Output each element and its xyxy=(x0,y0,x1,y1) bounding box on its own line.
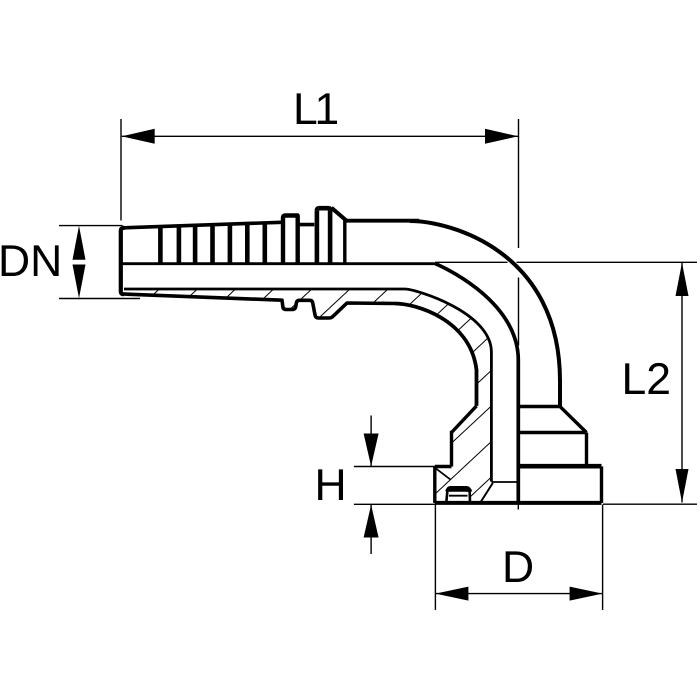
label DN xyxy=(2,245,59,276)
extra hatch stub at flange inner corner xyxy=(436,469,451,480)
OD bottom curve (inner bend) + left wall down xyxy=(395,304,477,406)
label L1 xyxy=(297,93,337,124)
label H xyxy=(318,469,343,500)
H bottom extension line xyxy=(354,503,436,505)
D arrows xyxy=(435,587,468,601)
dimension labels xyxy=(2,93,669,582)
L1 left arrow xyxy=(122,129,155,144)
cone left xyxy=(452,406,477,433)
label L2 xyxy=(625,363,669,394)
bottom edge of nipple (sloping) with teeth xyxy=(124,294,396,318)
outer contour: left end face xyxy=(121,228,125,294)
collar right vertical xyxy=(343,221,346,264)
bore chamfer at flange face xyxy=(481,483,493,502)
H arrows xyxy=(364,434,379,467)
hub left edge xyxy=(450,431,453,467)
counterbore shelf xyxy=(491,481,517,483)
L2 bottom extension line xyxy=(603,503,697,505)
H dimension lower stem xyxy=(370,505,372,554)
bore bottom line + curve into leg xyxy=(124,289,491,482)
DN bottom extension line xyxy=(59,298,140,300)
axis boundary curve into vertical leg + straight down to flange bottom xyxy=(435,264,518,503)
collar tooth 2 xyxy=(317,208,330,263)
D right extension line xyxy=(602,505,604,611)
L1 right arrow xyxy=(485,129,518,144)
D left extension line xyxy=(434,505,436,611)
hatched section region (lower wall of nipple, bend wall, hub and flange section) xyxy=(123,289,492,502)
barb vertical lines xyxy=(160,223,264,263)
cone right xyxy=(560,406,587,432)
centerline tick below flange face xyxy=(517,505,519,510)
hose axis centerline / L2 top extension line (left of arc crossing) xyxy=(435,261,508,263)
seal bump at flange face xyxy=(446,487,470,501)
L1 left extension line xyxy=(120,119,122,221)
outer arc of elbow + right edge down to shoulder xyxy=(410,221,560,407)
H top extension line xyxy=(354,466,435,468)
L2 arrows xyxy=(676,263,689,296)
D dimension line xyxy=(435,593,602,595)
chamfer from tooth2 to neck xyxy=(332,208,347,221)
L2 dimension line xyxy=(681,263,683,503)
H dimension upper stem xyxy=(370,416,372,467)
shoulder at top of cone (right) xyxy=(520,405,561,408)
vertical leg axis centerline, lower segment xyxy=(518,278,520,346)
L1 dimension line xyxy=(122,135,518,137)
dip between teeth xyxy=(298,223,315,227)
hub right edge xyxy=(585,433,588,465)
DN arrows xyxy=(73,226,86,260)
label D xyxy=(506,551,532,582)
top barb edge xyxy=(124,222,282,228)
horizontal axis line (section boundary), thick xyxy=(123,262,436,265)
neck top edge xyxy=(345,219,419,223)
flange xyxy=(518,464,601,469)
collar tooth 1 xyxy=(283,216,298,264)
hub top right xyxy=(520,431,587,434)
DN top extension line xyxy=(59,225,123,227)
vertical leg axis / L1 right extension line, upper segment xyxy=(518,119,520,248)
